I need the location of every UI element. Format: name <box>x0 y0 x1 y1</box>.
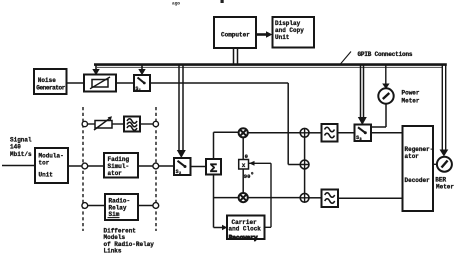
svg-text:140: 140 <box>10 144 21 151</box>
svg-text:Noise: Noise <box>38 77 56 84</box>
svg-text:Sim: Sim <box>109 211 120 218</box>
svg-text:Mbit/s: Mbit/s <box>10 151 32 158</box>
svg-text:3: 3 <box>360 138 362 142</box>
svg-text:2: 2 <box>179 172 181 176</box>
svg-text:x: x <box>242 162 246 169</box>
svg-text:BER: BER <box>435 177 446 184</box>
svg-text:Radio-: Radio- <box>109 197 131 204</box>
svg-text:Meter: Meter <box>402 98 420 105</box>
svg-text:Generator: Generator <box>36 85 65 92</box>
svg-text:Fading: Fading <box>108 156 130 163</box>
svg-text:and Copy: and Copy <box>275 27 304 34</box>
svg-text:Display: Display <box>275 20 301 27</box>
svg-text:Computer: Computer <box>221 32 250 39</box>
svg-text:Regener-: Regener- <box>405 146 434 153</box>
svg-text:Links: Links <box>104 247 122 254</box>
svg-text:Decoder: Decoder <box>405 177 431 184</box>
svg-text:Unit: Unit <box>39 172 54 179</box>
svg-text:Σ: Σ <box>210 161 218 176</box>
svg-text:Simul-: Simul- <box>108 163 130 170</box>
svg-text:ator: ator <box>405 153 420 160</box>
svg-text:ator: ator <box>108 170 123 177</box>
svg-text:Recovery: Recovery <box>229 235 258 242</box>
svg-text:Unit: Unit <box>275 34 290 41</box>
svg-text:tor: tor <box>39 160 50 167</box>
svg-text:GPIB Connections: GPIB Connections <box>358 51 413 58</box>
svg-text:0: 0 <box>245 153 248 160</box>
svg-text:ago: ago <box>172 2 180 7</box>
svg-text:Signal: Signal <box>10 137 32 144</box>
svg-text:Power: Power <box>402 90 420 97</box>
svg-text:and Clock: and Clock <box>229 226 262 233</box>
svg-text:Meter: Meter <box>436 184 454 191</box>
svg-text:90: 90 <box>244 173 251 180</box>
svg-text:1: 1 <box>139 89 141 93</box>
svg-text:Modula-: Modula- <box>39 153 64 160</box>
